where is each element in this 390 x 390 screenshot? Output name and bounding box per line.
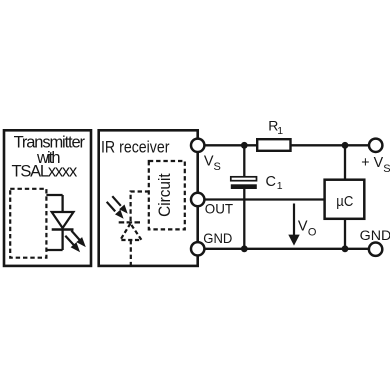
transmitter label [12,134,86,181]
svg-text:C: C [266,174,276,190]
wire LED axis upper [61,195,63,212]
wire LED axis lower [61,230,63,251]
transmitter dashed internal box [10,189,46,258]
wire cathode bottom [46,249,62,251]
wire anode top [46,194,62,196]
photodiode dashed wire bottom [130,240,132,266]
svg-text:V: V [298,219,308,235]
svg-text:µC: µC [336,194,353,210]
wire uC bottom vertical [344,219,346,249]
svg-text:S: S [214,161,221,173]
svg-text:S: S [383,163,390,175]
svg-text:Circuit: Circuit [156,173,174,217]
LED emission arrow 2 [65,236,80,252]
circuit label [156,173,174,217]
junction dot GND-C1 [241,245,248,252]
label uC [336,194,353,210]
svg-text:GND: GND [360,228,390,243]
IR receiver box [99,130,198,266]
svg-text:1: 1 [277,180,283,192]
wire VS net [205,144,369,146]
incoming light arrow 1 [112,196,127,213]
label GND right [360,228,390,243]
LED emission arrow 1 [71,231,85,248]
pin label GND [203,230,232,246]
svg-text:GND: GND [203,230,232,246]
wire uC top vertical [344,145,346,179]
label +VS [361,155,390,175]
svg-text:V: V [204,153,214,169]
pin GND [191,242,204,255]
capacitor C1 bottom plate [231,184,257,189]
circuit dashed box [149,161,185,229]
junction dot GND-uC [342,245,349,252]
IR receiver label [101,139,170,157]
svg-text:OUT: OUT [205,201,234,217]
wire C1 vertical upper [243,145,245,177]
wire GND net [205,248,369,250]
svg-text:O: O [308,227,317,239]
svg-text:1: 1 [277,125,283,137]
pin VS [191,139,204,152]
resistor R1 [257,139,290,151]
terminal +VS [369,139,382,152]
terminal GND [369,243,382,256]
capacitor C1 top plate [231,177,257,181]
photodiode cathode bar [119,221,142,223]
svg-text:IR receiver: IR receiver [101,139,170,157]
svg-text:+ V: + V [361,155,383,171]
LED D1 triangle [52,212,74,228]
photodiode dashed wire top [131,192,149,222]
label Vo [298,219,317,239]
transmitter box [4,130,91,266]
junction dot VS-uC [342,142,349,149]
pin label OUT [205,201,234,217]
wire OUT net [205,198,324,200]
pin label VS [204,153,221,173]
wire C1 vertical lower [243,188,245,249]
Vo arrow [288,204,299,246]
op-amp uC box [325,180,365,219]
LED cathode bar [52,228,74,230]
incoming light arrow 2 [107,202,124,219]
pin OUT [191,193,204,206]
photodiode D2 triangle [120,224,141,241]
svg-text:TSALxxxx: TSALxxxx [12,163,78,181]
label R1 [268,118,283,137]
junction dot VS-C1 [241,142,248,149]
label C1 [266,174,283,192]
